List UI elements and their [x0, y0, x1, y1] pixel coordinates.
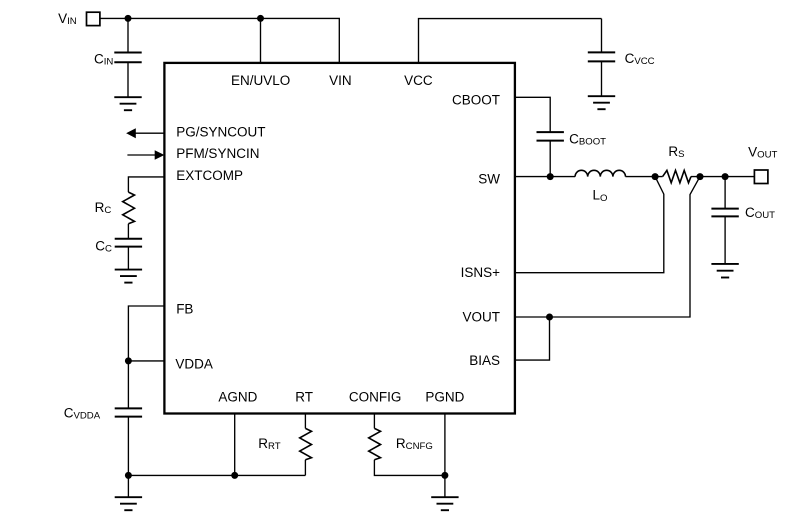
- svg-text:RCNFG: RCNFG: [396, 436, 433, 452]
- capacitor CVDDA plates: [115, 408, 142, 416]
- junction dot VIN rail / EN-UVLO: [257, 15, 264, 22]
- svg-text:EN/UVLO: EN/UVLO: [231, 73, 290, 88]
- junction dot FB / VDDA: [125, 357, 132, 364]
- svg-text:RC: RC: [95, 200, 112, 216]
- IC U1 body: [164, 63, 515, 414]
- svg-text:LO: LO: [593, 188, 608, 204]
- junction dot RS left: [652, 173, 659, 180]
- wire RCNFG to PGND node: [374, 460, 444, 476]
- ground (PGND): [431, 497, 458, 510]
- wire FB to VDDA node: [128, 306, 164, 361]
- wire CC to ground: [127, 247, 129, 270]
- svg-text:CVCC: CVCC: [625, 51, 655, 67]
- capacitor CVCC plates: [588, 52, 615, 61]
- svg-text:RS: RS: [668, 144, 684, 160]
- svg-text:CONFIG: CONFIG: [349, 389, 402, 404]
- junction dot AGND / rail: [231, 472, 238, 479]
- junction dot VOUT / BIAS: [546, 314, 553, 321]
- wire COUT top lead: [724, 177, 726, 209]
- ground (CIN): [114, 97, 141, 110]
- wire PFM/SYNCIN stub: [127, 154, 155, 156]
- wire VOUT kelvin sense from RS right node: [515, 177, 700, 317]
- ground (CC): [115, 270, 142, 283]
- junction dot SW / CBOOT: [547, 173, 554, 180]
- svg-text:AGND: AGND: [218, 389, 257, 404]
- svg-text:CIN: CIN: [94, 52, 113, 68]
- svg-text:CC: CC: [95, 238, 112, 254]
- svg-text:EXTCOMP: EXTCOMP: [176, 168, 243, 183]
- ground (COUT): [711, 264, 738, 278]
- wire CBOOT pin to capacitor: [515, 97, 550, 132]
- resistor RS zigzag: [663, 170, 691, 182]
- junction dot COUT node: [722, 173, 729, 180]
- wire BIAS to VOUT node: [515, 317, 550, 360]
- wire ISNS+ kelvin sense from RS left node: [515, 177, 664, 273]
- svg-text:VOUT: VOUT: [748, 145, 777, 161]
- resistor RRT zigzag: [300, 428, 312, 459]
- svg-text:CVDDA: CVDDA: [64, 406, 101, 422]
- svg-text:VOUT: VOUT: [462, 309, 500, 324]
- svg-text:RT: RT: [295, 389, 313, 404]
- svg-text:VDDA: VDDA: [175, 357, 213, 372]
- wire CVCC bottom lead to ground: [601, 61, 603, 96]
- svg-text:COUT: COUT: [745, 205, 775, 221]
- wire CIN top lead: [127, 18, 129, 52]
- wire PGND pin drop: [444, 415, 446, 476]
- capacitor CBOOT plates: [537, 132, 564, 141]
- svg-text:PFM/SYNCIN: PFM/SYNCIN: [176, 146, 259, 161]
- junction dot VIN rail / CIN: [125, 15, 132, 22]
- svg-text:PG/SYNCOUT: PG/SYNCOUT: [176, 124, 265, 139]
- wire PGND node to ground: [444, 475, 446, 497]
- svg-text:VIN: VIN: [58, 11, 77, 27]
- svg-text:RRT: RRT: [258, 436, 281, 452]
- wire VDDA node to CVDDA: [127, 361, 129, 409]
- capacitor CC plates: [115, 239, 142, 247]
- svg-text:CBOOT: CBOOT: [569, 132, 606, 148]
- junction dot PGND / RCNFG: [441, 472, 448, 479]
- svg-text:FB: FB: [176, 301, 193, 316]
- svg-text:CBOOT: CBOOT: [452, 93, 500, 108]
- wire bottom rail node to ground: [127, 475, 129, 497]
- junction dot RS right: [697, 173, 704, 180]
- wire EN/UVLO drop from VIN rail: [260, 18, 262, 63]
- wire CONFIG pin to RCNFG: [373, 415, 375, 429]
- wire PG/SYNCOUT stub: [135, 132, 164, 134]
- wire CBOOT capacitor to SW node: [549, 141, 551, 177]
- wire CVCC top lead: [601, 19, 603, 53]
- wire EXTCOMP to RC: [128, 177, 164, 192]
- resistor RCNFG zigzag: [369, 428, 381, 459]
- wire RRT to rail: [304, 460, 306, 476]
- resistor RC zigzag: [123, 192, 135, 224]
- svg-text:PGND: PGND: [425, 389, 464, 404]
- svg-text:SW: SW: [478, 172, 500, 187]
- ground (CVCC): [588, 96, 615, 109]
- arrowhead PG/SYNCOUT output arrow: [126, 128, 136, 138]
- arrowhead PFM/SYNCIN input arrow: [155, 150, 165, 160]
- junction dot CVDDA / ground rail: [125, 472, 132, 479]
- ground (analog, below CVDDA): [115, 497, 142, 510]
- wire VDDA pin stub: [128, 360, 164, 362]
- wire RT pin to RRT: [304, 415, 306, 429]
- svg-text:VIN: VIN: [329, 73, 352, 88]
- capacitor CIN plates: [114, 53, 141, 63]
- inductor LO: [575, 170, 625, 176]
- wire VCC riser and rail to CVCC: [419, 19, 602, 64]
- terminal VIN input square: [87, 12, 100, 25]
- wire COUT bottom lead to ground: [724, 216, 726, 264]
- wire inductor to RS left node: [626, 176, 663, 178]
- wire SW pin to inductor: [515, 176, 575, 178]
- wire analog ground rail: [128, 474, 305, 476]
- wire VIN rail (terminal to VIN pin corner): [100, 18, 339, 63]
- svg-text:BIAS: BIAS: [469, 353, 500, 368]
- wire RS right to VOUT terminal: [691, 176, 754, 178]
- svg-text:VCC: VCC: [404, 73, 433, 88]
- terminal VOUT output square: [754, 170, 768, 184]
- capacitor COUT plates: [711, 209, 738, 217]
- wire CIN bottom lead to ground: [127, 62, 129, 97]
- wire AGND pin drop: [234, 415, 236, 476]
- svg-text:ISNS+: ISNS+: [461, 265, 501, 280]
- wire CVDDA to bottom rail: [127, 417, 129, 476]
- wire RC to CC: [127, 224, 129, 239]
